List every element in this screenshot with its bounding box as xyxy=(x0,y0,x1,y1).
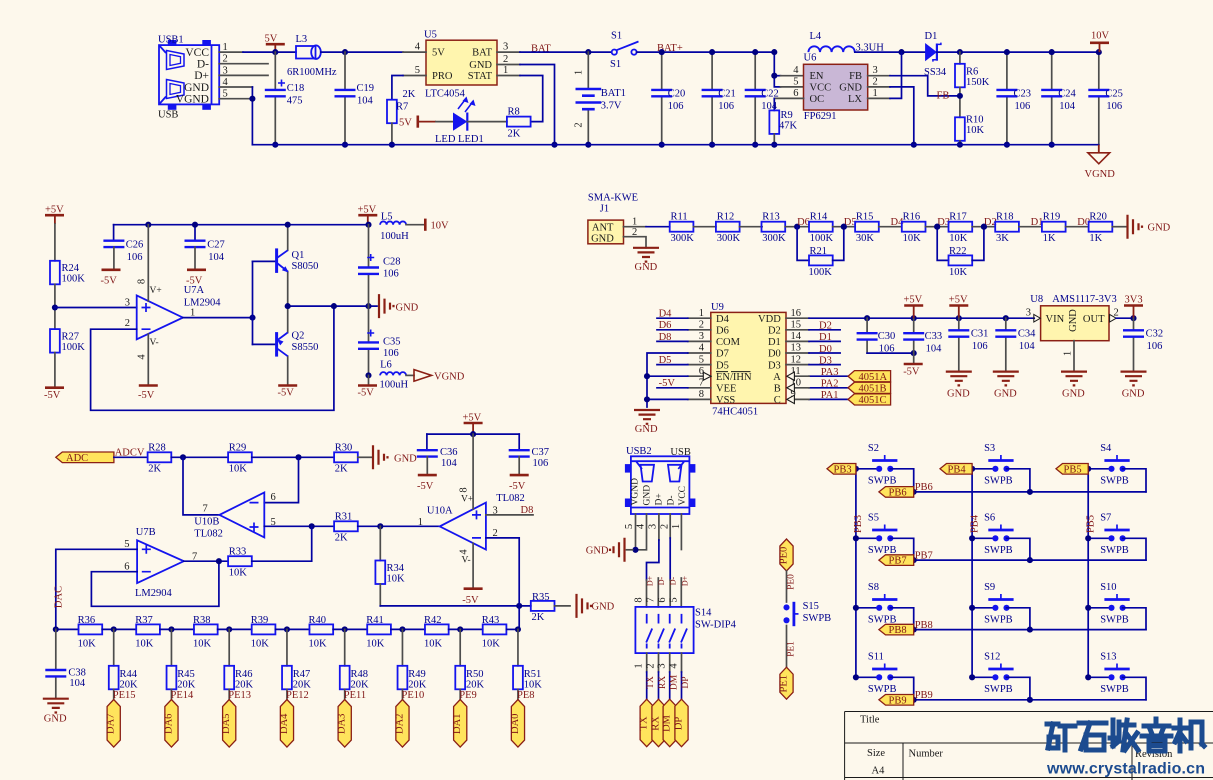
svg-text:1: 1 xyxy=(873,88,878,99)
svg-text:V-: V- xyxy=(150,338,159,348)
wire ADC to R28 xyxy=(114,456,148,458)
svg-text:3: 3 xyxy=(873,65,878,76)
IC U8 AMS1117-3V3 xyxy=(1026,294,1119,340)
svg-text:D8: D8 xyxy=(659,332,672,343)
wire xyxy=(391,628,425,630)
wire node B to U10B pin6 xyxy=(264,457,298,502)
resistor R39 xyxy=(251,615,276,649)
resistor R47 xyxy=(282,626,311,690)
svg-text:GND: GND xyxy=(635,424,658,435)
svg-text:D-: D- xyxy=(666,495,676,505)
pin USB2.2 D- xyxy=(669,514,671,538)
port PB7 xyxy=(879,555,914,566)
resistor R21 xyxy=(797,224,847,278)
pin S14.2 xyxy=(658,653,660,672)
svg-text:C21: C21 xyxy=(718,89,736,100)
button S10 SWPB xyxy=(1088,582,1130,625)
svg-text:VEE: VEE xyxy=(716,384,736,395)
svg-text:VCC: VCC xyxy=(678,486,688,506)
svg-text:106: 106 xyxy=(383,348,399,359)
svg-text:3: 3 xyxy=(503,42,508,53)
capacitor C32 xyxy=(1123,318,1163,371)
op-amp U10A TL082 xyxy=(418,487,525,565)
port DA2 xyxy=(396,700,409,748)
pin USB2.5 xyxy=(635,514,637,550)
svg-text:150K: 150K xyxy=(966,77,990,88)
svg-text:PE1: PE1 xyxy=(779,675,790,693)
ground GND (C31) xyxy=(946,372,972,386)
svg-text:PE1: PE1 xyxy=(787,641,797,657)
svg-text:R14: R14 xyxy=(810,211,828,222)
port RX xyxy=(652,699,665,747)
svg-text:R44: R44 xyxy=(120,669,138,680)
svg-text:C31: C31 xyxy=(971,328,989,339)
svg-text:10K: 10K xyxy=(949,233,968,244)
svg-text:4: 4 xyxy=(669,663,680,669)
svg-text:20K: 20K xyxy=(293,679,312,690)
wire button out xyxy=(1123,677,1146,700)
capacitor C18 xyxy=(265,52,305,145)
svg-text:R29: R29 xyxy=(229,443,247,454)
wire U6 feed xyxy=(774,52,780,87)
svg-text:PB7: PB7 xyxy=(915,550,933,561)
svg-text:Q1: Q1 xyxy=(292,250,305,261)
svg-text:DA7: DA7 xyxy=(106,714,117,734)
svg-text:Title: Title xyxy=(860,715,880,726)
capacitor C36 xyxy=(417,434,458,492)
port DA4 xyxy=(280,700,293,748)
svg-text:DA0: DA0 xyxy=(510,714,521,734)
svg-text:6: 6 xyxy=(657,597,668,602)
pin U7A.2 feedback xyxy=(91,306,334,410)
svg-text:USB: USB xyxy=(158,110,178,121)
wire PE1 xyxy=(786,626,788,668)
wire matrix column PB5 xyxy=(1087,469,1089,678)
svg-text:14: 14 xyxy=(791,331,802,342)
ground GND (C32) xyxy=(1121,372,1147,386)
port DP xyxy=(675,699,688,747)
svg-text:SWPB: SWPB xyxy=(868,476,897,487)
svg-text:R38: R38 xyxy=(193,615,211,626)
port PB9 xyxy=(879,695,914,706)
svg-text:PB4: PB4 xyxy=(948,464,967,475)
svg-text:R45: R45 xyxy=(177,669,195,680)
svg-text:D5: D5 xyxy=(659,355,672,366)
svg-text:475: 475 xyxy=(287,96,303,107)
resistor R7 xyxy=(387,89,416,123)
svg-text:R35: R35 xyxy=(532,592,550,603)
ground GND (J1) xyxy=(633,248,659,262)
svg-text:C19: C19 xyxy=(357,83,375,94)
svg-text:U5: U5 xyxy=(424,30,437,41)
pin U6.2 GND wire down xyxy=(868,86,890,88)
wire/label D4 xyxy=(688,317,711,319)
capacitor C25 xyxy=(1088,52,1123,145)
svg-text:D2: D2 xyxy=(819,321,832,332)
svg-text:S7: S7 xyxy=(1100,513,1111,524)
svg-text:D3: D3 xyxy=(819,355,832,366)
resistor R10 xyxy=(955,115,985,141)
wire 5V top run xyxy=(243,51,296,53)
capacitor C23 xyxy=(996,52,1031,145)
svg-text:D2: D2 xyxy=(768,326,781,337)
svg-text:SMA-KWE: SMA-KWE xyxy=(588,193,638,204)
svg-text:S15: S15 xyxy=(803,601,819,612)
svg-text:R22: R22 xyxy=(949,246,967,257)
svg-text:104: 104 xyxy=(357,96,374,107)
svg-text:3: 3 xyxy=(657,663,668,668)
wire xyxy=(972,226,995,228)
svg-text:www.crystalradio.cn: www.crystalradio.cn xyxy=(1046,761,1205,778)
svg-text:5: 5 xyxy=(669,597,680,602)
svg-text:C35: C35 xyxy=(383,336,401,347)
transistor Q1 S8050 xyxy=(253,225,319,306)
svg-text:5V: 5V xyxy=(432,48,445,59)
resistor R42 xyxy=(424,615,449,649)
wire matrix column PB4 xyxy=(971,469,973,678)
svg-text:106: 106 xyxy=(1147,341,1163,352)
svg-text:R49: R49 xyxy=(408,669,426,680)
ground GND (C34) xyxy=(993,372,1019,386)
svg-text:L6: L6 xyxy=(380,359,392,370)
capacitor C37 xyxy=(509,434,549,492)
watermark logo xyxy=(1047,719,1204,751)
port DA0 xyxy=(511,700,524,748)
svg-text:DA1: DA1 xyxy=(452,714,463,734)
port DA5 xyxy=(223,700,236,748)
svg-text:SWPB: SWPB xyxy=(1100,545,1129,556)
pin U5.4 xyxy=(403,51,426,53)
resistor R40 xyxy=(309,615,334,649)
svg-text:R10: R10 xyxy=(966,115,984,126)
svg-text:S4: S4 xyxy=(1100,443,1112,454)
svg-text:D8: D8 xyxy=(521,505,534,516)
svg-text:GND: GND xyxy=(1122,389,1145,400)
inductor L4 xyxy=(808,31,884,54)
svg-text:4: 4 xyxy=(793,65,799,76)
ground GND (ladder) xyxy=(1128,215,1143,239)
svg-text:PE10: PE10 xyxy=(402,690,425,701)
svg-text:8: 8 xyxy=(699,389,704,400)
svg-text:R16: R16 xyxy=(903,211,921,222)
svg-text:PB4: PB4 xyxy=(969,514,980,533)
wire xyxy=(1019,226,1042,228)
svg-text:SWPB: SWPB xyxy=(1100,476,1129,487)
svg-text:PB9: PB9 xyxy=(889,695,907,706)
pin USB1.2 xyxy=(219,63,268,65)
svg-text:L3: L3 xyxy=(296,34,308,45)
svg-text:R13: R13 xyxy=(762,211,780,222)
wire to pin3 xyxy=(55,307,137,309)
svg-text:S5: S5 xyxy=(868,513,879,524)
svg-text:VGND: VGND xyxy=(434,371,465,382)
IC U5 LTC4054 xyxy=(415,30,509,100)
port DM xyxy=(663,699,676,747)
button S12 SWPB xyxy=(972,652,1014,695)
resistor R48 xyxy=(340,626,369,690)
power VGND xyxy=(1098,145,1100,153)
title block xyxy=(845,712,1213,780)
svg-text:SWPB: SWPB xyxy=(984,476,1013,487)
resistor R44 xyxy=(109,626,138,690)
svg-text:PE14: PE14 xyxy=(171,690,195,701)
svg-text:-5V: -5V xyxy=(659,378,676,389)
svg-text:-5V: -5V xyxy=(509,481,526,492)
transistor Q2 S8550 xyxy=(253,306,319,385)
svg-text:C: C xyxy=(774,395,781,406)
wire button out xyxy=(1123,538,1146,560)
svg-text:J1: J1 xyxy=(600,204,609,215)
svg-text:U10B: U10B xyxy=(194,517,219,528)
connector J1 SMA-KWE xyxy=(588,193,638,245)
pin S14.3 xyxy=(669,653,671,672)
svg-text:C33: C33 xyxy=(925,331,943,342)
svg-text:PE11: PE11 xyxy=(344,690,366,701)
IC U9 74HC4051 xyxy=(711,302,786,417)
wire xyxy=(506,628,518,630)
LED LED1 xyxy=(435,97,484,146)
svg-text:5V: 5V xyxy=(265,34,278,45)
svg-text:D7: D7 xyxy=(716,349,729,360)
svg-text:2: 2 xyxy=(125,318,130,329)
svg-text:LED LED1: LED LED1 xyxy=(435,134,484,145)
node R24/R27 xyxy=(54,284,56,329)
svg-text:S14: S14 xyxy=(695,608,712,619)
resistor R49 xyxy=(398,626,427,690)
wire PE0 xyxy=(786,571,788,602)
port PB4 xyxy=(940,464,972,475)
ground GND (C38) xyxy=(43,699,69,713)
port TX xyxy=(640,699,653,747)
arrow pin6 xyxy=(703,372,711,380)
svg-text:10K: 10K xyxy=(309,638,328,649)
svg-text:10K: 10K xyxy=(366,638,385,649)
svg-text:2: 2 xyxy=(873,76,878,87)
svg-text:GND: GND xyxy=(469,60,492,71)
svg-text:8: 8 xyxy=(137,279,148,284)
resistor R12 xyxy=(716,211,741,244)
power -5V (Q2) xyxy=(278,384,297,387)
svg-text:PB5: PB5 xyxy=(1064,464,1082,475)
svg-text:10K: 10K xyxy=(387,573,406,584)
svg-text:R33: R33 xyxy=(229,547,247,558)
resistor R14 xyxy=(809,211,834,244)
svg-text:VSS: VSS xyxy=(716,395,735,406)
resistor R9 xyxy=(769,110,797,134)
svg-text:C26: C26 xyxy=(126,240,144,251)
pin U7A V+ xyxy=(147,225,149,301)
wire/label PA3 xyxy=(809,375,848,377)
svg-text:V+: V+ xyxy=(150,286,162,296)
svg-text:TL082: TL082 xyxy=(496,493,525,504)
svg-text:20K: 20K xyxy=(408,679,427,690)
button S5 SWPB xyxy=(856,513,898,556)
svg-text:10K: 10K xyxy=(251,638,269,649)
svg-text:GND: GND xyxy=(184,82,209,94)
svg-text:106: 106 xyxy=(383,268,399,279)
svg-text:R50: R50 xyxy=(466,669,484,680)
svg-text:C30: C30 xyxy=(878,331,896,342)
pin U5.3 BAT xyxy=(497,51,520,53)
resistor R27 xyxy=(50,329,85,353)
wire L4 to D1 xyxy=(855,51,925,53)
resistor R35 xyxy=(531,592,555,623)
svg-text:3.7V: 3.7V xyxy=(601,100,622,111)
wire DAC ladder row xyxy=(56,628,79,630)
svg-text:TX: TX xyxy=(646,676,656,689)
ground GND (USB2) xyxy=(627,549,633,551)
svg-text:DA5: DA5 xyxy=(221,714,232,734)
op-amp U10B TL082 xyxy=(194,492,275,540)
svg-text:2: 2 xyxy=(503,54,508,65)
svg-text:R19: R19 xyxy=(1043,211,1061,222)
svg-text:GND: GND xyxy=(1068,309,1079,332)
resistor R8 xyxy=(467,107,530,140)
svg-text:V-: V- xyxy=(462,556,471,566)
wire/label D2 xyxy=(786,329,809,331)
pin USB1.3 xyxy=(219,74,268,76)
svg-text:R18: R18 xyxy=(996,211,1014,222)
pin U10A.3 D8 xyxy=(486,514,533,516)
label PE14 xyxy=(170,689,172,699)
svg-text:2: 2 xyxy=(659,524,670,529)
svg-text:PE13: PE13 xyxy=(228,690,251,701)
resistor R46 xyxy=(224,626,253,690)
svg-text:USB1: USB1 xyxy=(158,35,184,46)
svg-text:10K: 10K xyxy=(424,638,443,649)
svg-text:C36: C36 xyxy=(440,447,458,458)
pin U7A.1 output xyxy=(183,317,253,319)
svg-text:D4: D4 xyxy=(659,309,673,320)
svg-text:S8: S8 xyxy=(868,582,879,593)
svg-text:R41: R41 xyxy=(366,615,384,626)
svg-text:GND: GND xyxy=(839,82,862,93)
capacitor C20 xyxy=(651,52,685,145)
button S4 SWPB xyxy=(1088,443,1130,486)
wire button out xyxy=(890,469,913,492)
svg-text:SWPB: SWPB xyxy=(984,684,1013,695)
port PB8 xyxy=(879,624,914,635)
svg-text:8: 8 xyxy=(459,487,470,492)
label PE12 xyxy=(286,689,288,699)
svg-text:DP: DP xyxy=(681,676,691,688)
wire emitter row xyxy=(288,305,377,307)
node D5 xyxy=(841,224,847,230)
ground rail xyxy=(252,144,1098,146)
svg-text:10K: 10K xyxy=(78,638,97,649)
wire to R29 xyxy=(171,456,228,458)
wire bottom row xyxy=(379,584,381,606)
svg-text:R9: R9 xyxy=(781,110,793,121)
pin USB1.5 xyxy=(219,98,252,100)
svg-text:100K: 100K xyxy=(810,233,834,244)
svg-text:4: 4 xyxy=(415,42,421,53)
resistor R22 xyxy=(934,224,987,278)
svg-text:6: 6 xyxy=(271,492,276,503)
pin J1.2 to GND xyxy=(624,237,647,248)
pin U6.3 FB wire xyxy=(868,75,890,77)
svg-text:4: 4 xyxy=(459,549,470,555)
pin U5.1 STAT wire to R8 xyxy=(497,75,520,77)
svg-text:15: 15 xyxy=(791,320,802,331)
svg-text:U9: U9 xyxy=(711,302,724,313)
svg-text:PRO: PRO xyxy=(432,71,453,82)
svg-text:LTC4054: LTC4054 xyxy=(425,89,466,100)
svg-text:7: 7 xyxy=(203,504,208,515)
wire xyxy=(879,226,902,228)
label PE11 xyxy=(344,689,346,699)
resistor R15 xyxy=(855,211,879,244)
wire xyxy=(218,628,252,630)
wire R31 to U10A xyxy=(358,525,440,527)
svg-text:PB6: PB6 xyxy=(889,488,907,499)
svg-text:Q2: Q2 xyxy=(292,331,305,342)
resistor R34 xyxy=(375,526,405,584)
wire BAT+ run xyxy=(637,51,775,53)
svg-text:R46: R46 xyxy=(235,669,253,680)
svg-text:30K: 30K xyxy=(856,233,875,244)
svg-text:PA1: PA1 xyxy=(821,390,839,401)
capacitor C22 xyxy=(745,52,779,145)
resistor R51 xyxy=(513,626,542,690)
pin USB1.4 xyxy=(219,86,252,88)
wire VDD net xyxy=(786,317,809,319)
svg-text:300K: 300K xyxy=(762,233,786,244)
wire BAT to switch xyxy=(520,51,612,53)
svg-text:10K: 10K xyxy=(229,463,248,474)
pin J1.1 xyxy=(624,226,647,228)
wire VGND down xyxy=(251,87,253,145)
capacitor C34 xyxy=(995,318,1036,371)
pin U6.1 LX wire up xyxy=(868,97,890,99)
svg-text:C18: C18 xyxy=(287,83,305,94)
svg-text:10K: 10K xyxy=(482,638,501,649)
svg-text:R34: R34 xyxy=(387,563,405,574)
svg-text:4: 4 xyxy=(699,343,705,354)
svg-text:DAC: DAC xyxy=(54,586,65,608)
pin USB1.1 xyxy=(219,51,243,53)
resistor R29 xyxy=(228,443,252,475)
wire xyxy=(833,226,856,228)
wire xyxy=(160,628,194,630)
svg-text:-5V: -5V xyxy=(138,390,155,401)
capacitor C35 xyxy=(358,306,401,375)
port 4051C xyxy=(848,394,891,405)
svg-text:R12: R12 xyxy=(717,211,735,222)
svg-text:R27: R27 xyxy=(62,332,80,343)
svg-text:5: 5 xyxy=(624,524,635,529)
svg-text:PE0: PE0 xyxy=(787,574,797,590)
capacitor C33 xyxy=(903,318,942,355)
svg-text:DM: DM xyxy=(669,674,679,690)
svg-text:RX: RX xyxy=(658,676,668,689)
wire button out xyxy=(1007,469,1030,492)
svg-text:16: 16 xyxy=(791,308,802,319)
node D6 xyxy=(794,224,800,230)
svg-text:10K: 10K xyxy=(966,125,985,136)
wire pin2 loop xyxy=(486,538,519,606)
svg-text:VGND: VGND xyxy=(176,94,209,106)
svg-text:GND: GND xyxy=(592,602,615,613)
svg-text:3: 3 xyxy=(699,331,704,342)
svg-text:2K: 2K xyxy=(532,612,545,623)
svg-text:D5: D5 xyxy=(716,360,729,371)
resistor R50 xyxy=(455,626,484,690)
port PE0 xyxy=(780,539,793,571)
wire to R30 xyxy=(252,456,334,458)
svg-text:C34: C34 xyxy=(1018,328,1036,339)
capacitor C26 xyxy=(101,225,144,287)
